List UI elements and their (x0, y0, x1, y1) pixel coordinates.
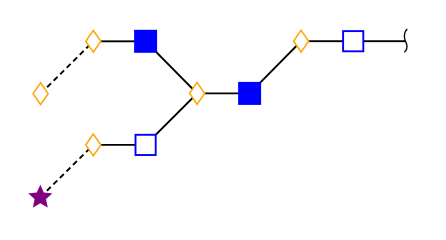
wire D-E (197, 92, 250, 94)
wire C-D (146, 41, 198, 93)
node F: open diamond (294, 30, 309, 52)
wire B-C (93, 40, 145, 42)
wire dashed A-B (41, 41, 94, 93)
wire J-D (146, 93, 198, 144)
wire I-J (93, 144, 145, 146)
wire G-squiggle (353, 40, 405, 42)
wire F-G (301, 40, 353, 42)
node C: filled square (134, 30, 157, 53)
node A: open diamond (33, 83, 48, 105)
node S: filled star (28, 185, 52, 208)
wire dashed S-I (40, 145, 93, 197)
node G: open square (343, 31, 363, 51)
node B: open diamond (86, 30, 101, 52)
node I: open diamond (86, 134, 101, 156)
wire E-F (250, 41, 302, 93)
node D: open diamond (central) (190, 83, 205, 105)
node E: filled square (238, 82, 261, 105)
squiggle (reducing end) (404, 29, 407, 52)
node J: open square (136, 135, 156, 155)
